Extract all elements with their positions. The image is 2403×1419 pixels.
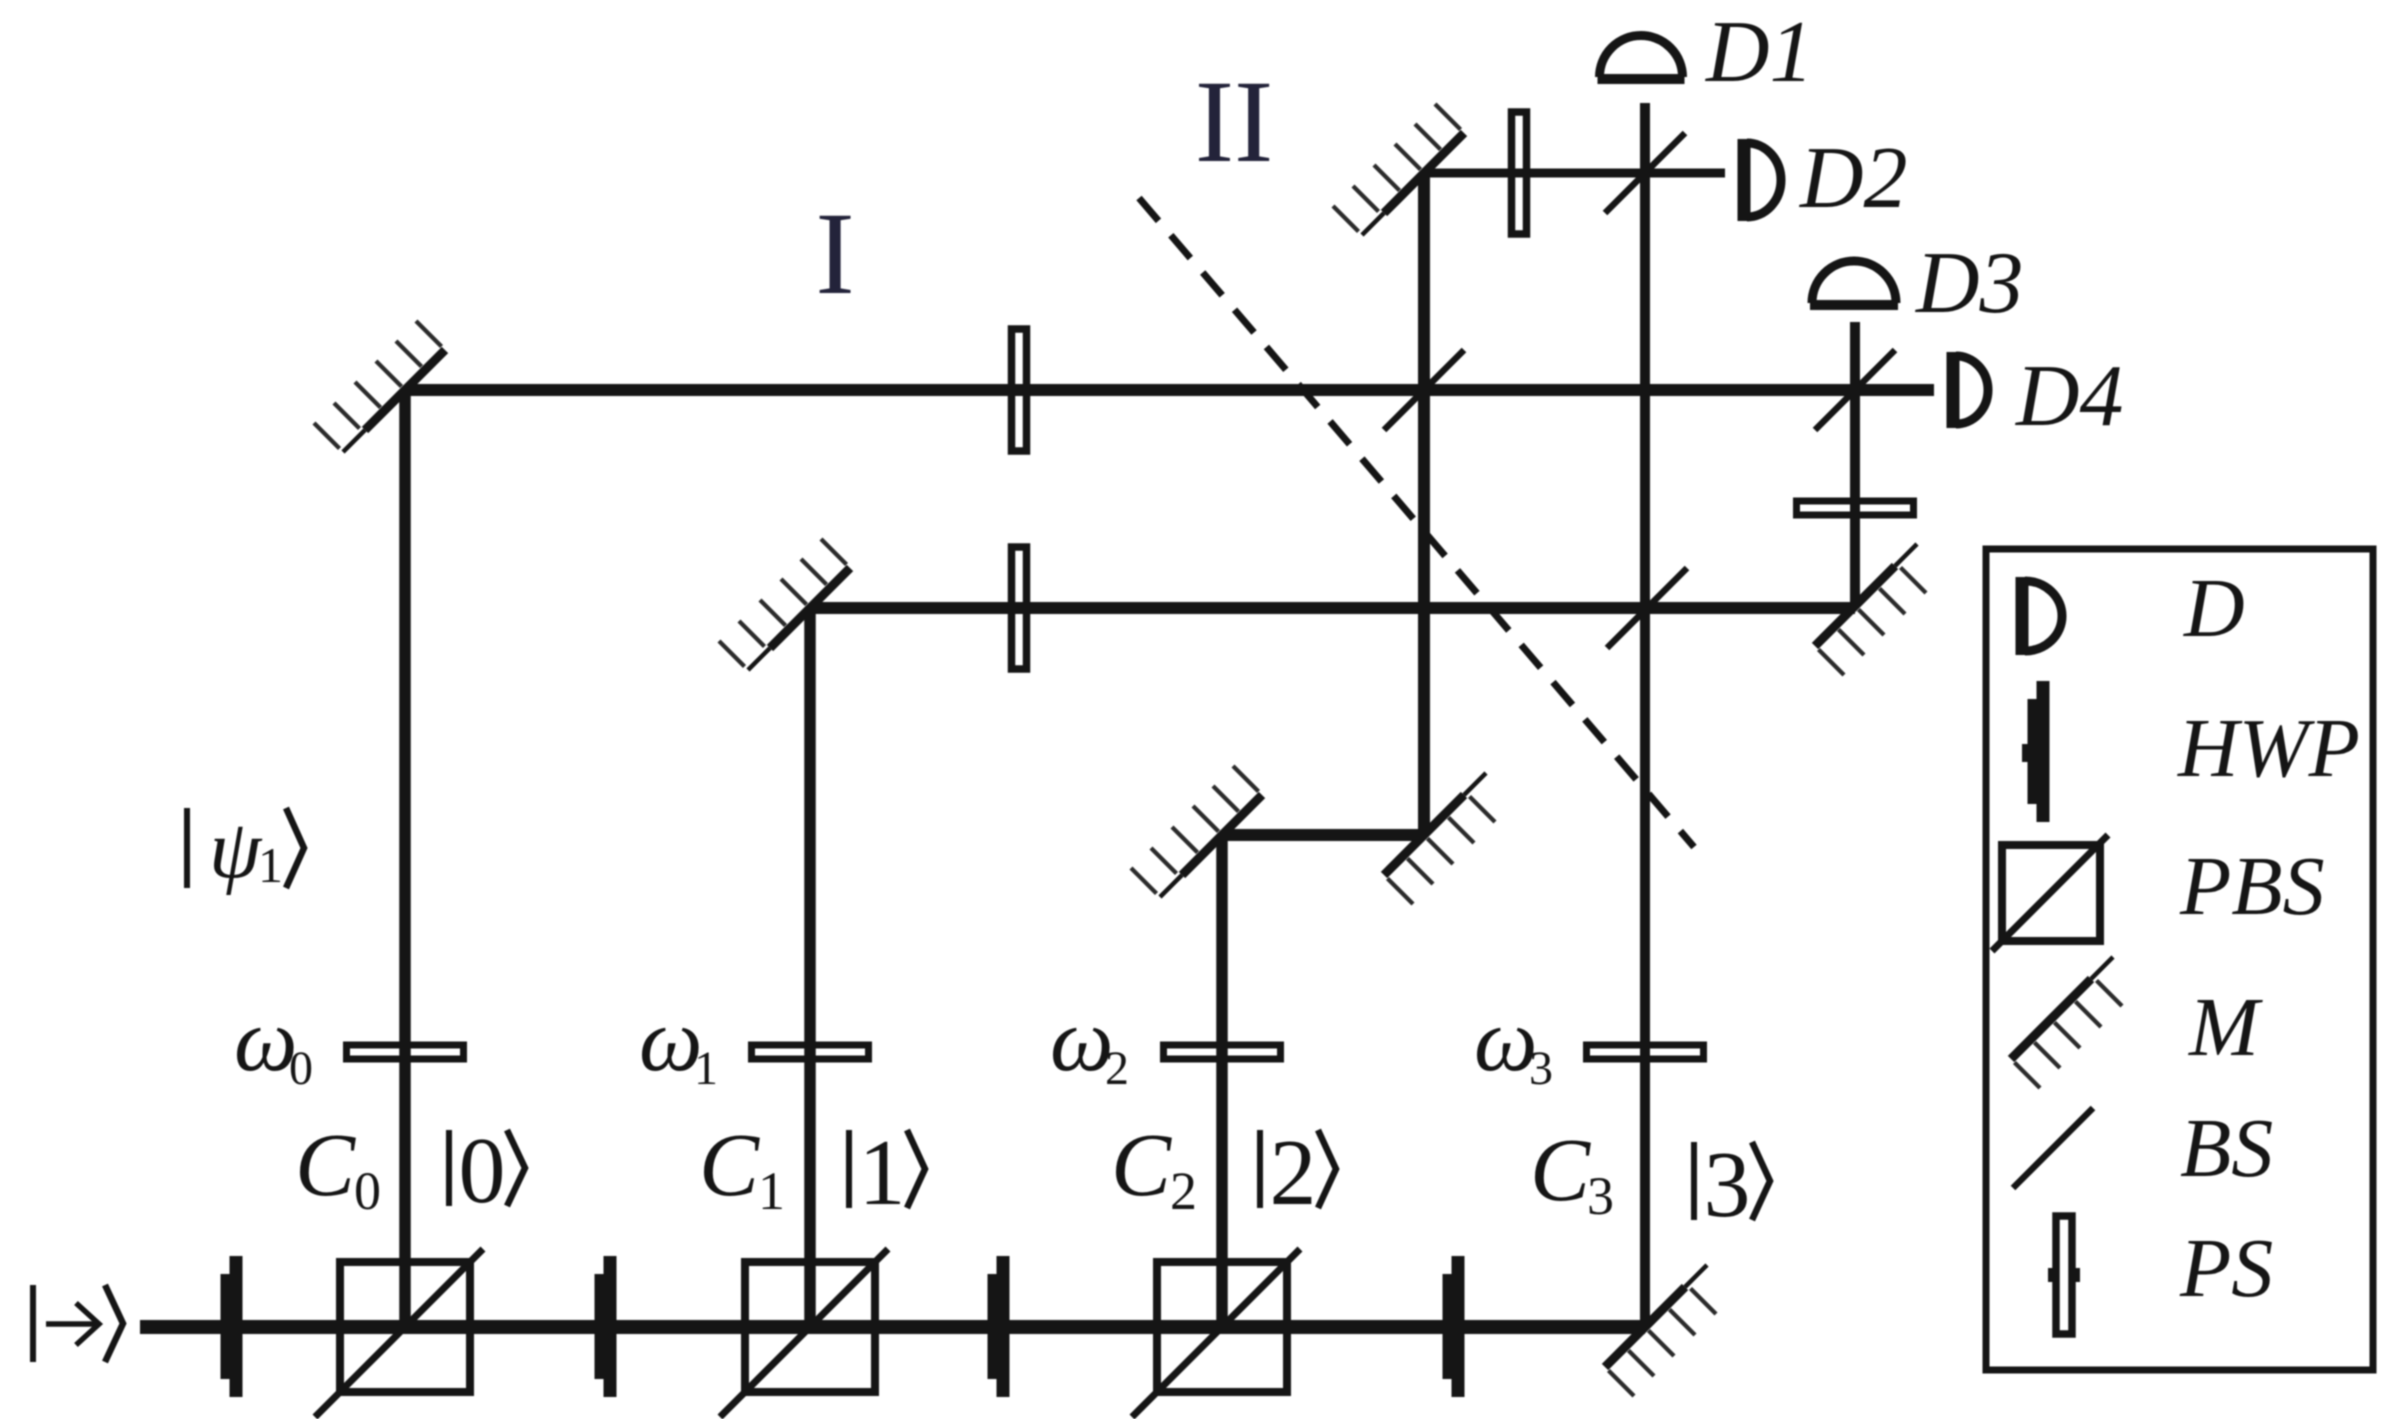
PS plate on top line bbox=[1512, 112, 1527, 234]
svg-text:D4: D4 bbox=[2015, 348, 2124, 445]
svg-text:ω: ω bbox=[234, 991, 298, 1090]
label omega2 bbox=[1050, 991, 1129, 1095]
BS on line I bbox=[1384, 350, 1464, 430]
BS right (D3/D4) bbox=[1815, 350, 1895, 430]
svg-text:1: 1 bbox=[694, 1042, 718, 1095]
svg-text:D: D bbox=[2183, 562, 2245, 655]
svg-text:2: 2 bbox=[1270, 1121, 1317, 1225]
legend label HWP bbox=[2177, 702, 2360, 795]
svg-text:1: 1 bbox=[758, 1161, 785, 1221]
label C2 bbox=[1111, 1116, 1197, 1221]
wire: vertical beam |0> bbox=[399, 390, 411, 1327]
svg-text:M: M bbox=[2188, 981, 2263, 1074]
wire: middle vertical bbox=[1418, 173, 1430, 835]
legend label D bbox=[2183, 562, 2245, 655]
label D2 bbox=[1799, 130, 1908, 227]
wire: vertical beam |2> bbox=[1216, 835, 1228, 1327]
PBS cube C0 bbox=[315, 1249, 483, 1417]
detector D3 bbox=[1810, 261, 1898, 305]
HWP plate 2 bbox=[595, 1256, 617, 1397]
svg-text:C: C bbox=[1530, 1121, 1591, 1220]
mirror M middle (y=835) bbox=[1384, 773, 1495, 904]
HWP plate 4 bbox=[1443, 1256, 1465, 1397]
mirror M bottom-right bbox=[1605, 1265, 1716, 1396]
label omega1 bbox=[639, 991, 718, 1095]
svg-text:PS: PS bbox=[2179, 1222, 2273, 1315]
legend symbol M bbox=[2011, 957, 2122, 1088]
svg-text:0: 0 bbox=[289, 1042, 313, 1095]
wire: bottom input beam bbox=[140, 1320, 1645, 1334]
label ket2 bbox=[1260, 1121, 1336, 1225]
svg-text:C: C bbox=[699, 1116, 760, 1215]
BS middle line bbox=[1607, 568, 1687, 648]
svg-text:0: 0 bbox=[459, 1119, 506, 1223]
svg-text:D2: D2 bbox=[1799, 130, 1908, 227]
PS plate on line I bbox=[1012, 329, 1027, 451]
legend label PBS bbox=[2179, 840, 2325, 933]
phase plate omega2 bbox=[1164, 1045, 1281, 1059]
legend label PS bbox=[2179, 1222, 2273, 1315]
svg-text:I: I bbox=[815, 188, 854, 319]
svg-text:HWP: HWP bbox=[2177, 702, 2360, 795]
legend label M bbox=[2188, 981, 2263, 1074]
detector D1 bbox=[1598, 36, 1685, 80]
legend label BS bbox=[2180, 1102, 2273, 1195]
phase plate omega1 bbox=[752, 1045, 869, 1059]
legend symbol PS bbox=[2048, 1216, 2080, 1334]
wire: vertical from BS to mirror (right) bbox=[1850, 322, 1860, 606]
legend symbol D bbox=[2022, 577, 2062, 655]
phase plate omega3 bbox=[1587, 1045, 1704, 1059]
PBS cube C2 bbox=[1132, 1249, 1300, 1417]
svg-text:BS: BS bbox=[2180, 1102, 2273, 1195]
svg-text:II: II bbox=[1195, 56, 1274, 187]
svg-text:ψ: ψ bbox=[209, 803, 263, 896]
label ket0 bbox=[449, 1119, 525, 1223]
legend symbol HWP bbox=[2022, 681, 2050, 822]
svg-text:3: 3 bbox=[1704, 1133, 1751, 1237]
label D1 bbox=[1705, 4, 1814, 101]
label psi1 ket bbox=[187, 803, 304, 896]
svg-text:3: 3 bbox=[1529, 1042, 1553, 1095]
svg-text:D3: D3 bbox=[1915, 235, 2024, 332]
PS plate on middle line bbox=[1012, 547, 1027, 669]
label D4 bbox=[2015, 348, 2124, 445]
svg-text:2: 2 bbox=[1170, 1161, 1197, 1221]
wire: top line to D2 bbox=[1424, 169, 1725, 178]
svg-text:2: 2 bbox=[1105, 1042, 1129, 1095]
label omega0 bbox=[234, 991, 313, 1095]
detector D4 bbox=[1953, 352, 1988, 428]
legend symbol BS bbox=[2013, 1108, 2093, 1188]
svg-text:ω: ω bbox=[639, 991, 703, 1090]
dashed boundary line II bbox=[1139, 198, 1694, 847]
wire: horizontal middle line bbox=[810, 602, 1855, 614]
BS top (D1/D2) bbox=[1605, 133, 1685, 213]
svg-text:0: 0 bbox=[354, 1161, 381, 1221]
mirror M above C1 bbox=[719, 539, 850, 670]
svg-text:D1: D1 bbox=[1705, 4, 1814, 101]
label C3 bbox=[1530, 1121, 1614, 1226]
svg-text:PBS: PBS bbox=[2179, 840, 2325, 933]
label input ket right-arrow bbox=[33, 1285, 123, 1362]
label ket3 bbox=[1694, 1133, 1770, 1237]
svg-text:ω: ω bbox=[1050, 991, 1114, 1090]
PBS cube C1 bbox=[720, 1249, 888, 1417]
svg-text:C: C bbox=[1111, 1116, 1172, 1215]
label D3 bbox=[1915, 235, 2024, 332]
mirror M above C2 bbox=[1131, 766, 1262, 897]
wire: horizontal line I bbox=[405, 384, 1934, 396]
svg-text:1: 1 bbox=[258, 837, 283, 893]
svg-text:ω: ω bbox=[1474, 991, 1538, 1090]
label C1 bbox=[699, 1116, 785, 1221]
wire: vertical beam |3> to D1 bbox=[1640, 103, 1650, 1327]
label omega3 bbox=[1474, 991, 1553, 1095]
svg-text:3: 3 bbox=[1587, 1166, 1614, 1226]
wire: short line y=835 bbox=[1222, 829, 1424, 841]
label C0 bbox=[295, 1116, 381, 1221]
svg-text:1: 1 bbox=[859, 1121, 906, 1225]
mirror M right (y=606) bbox=[1815, 544, 1926, 675]
svg-text:C: C bbox=[295, 1116, 356, 1215]
mirror M top-left bbox=[314, 321, 445, 452]
label II bbox=[1195, 56, 1274, 187]
mirror M middle top bbox=[1333, 104, 1464, 235]
phase plate omega0 bbox=[347, 1045, 464, 1059]
wire: vertical beam |1> bbox=[804, 608, 816, 1327]
legend symbol PBS bbox=[1992, 835, 2108, 951]
legend box bbox=[1986, 549, 2373, 1370]
HWP plate 3 bbox=[988, 1256, 1010, 1397]
detector D2 bbox=[1744, 139, 1781, 221]
HWP plate 1 (input) bbox=[221, 1256, 243, 1397]
phase plate on arm to mirror above legend bbox=[1797, 501, 1914, 515]
label I bbox=[815, 188, 854, 319]
label ket1 bbox=[849, 1121, 925, 1225]
